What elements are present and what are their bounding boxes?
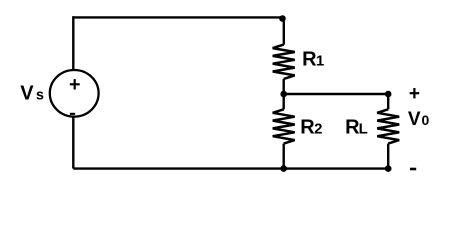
voltage source VS circle: [50, 70, 99, 117]
wire middle horizontal (R1/R2 junction to RL top): [284, 93, 389, 95]
svg-text:R: R: [302, 49, 317, 71]
output minus sign: [410, 168, 416, 171]
svg-text:0: 0: [422, 112, 430, 128]
resistor R2: [273, 94, 295, 169]
wire top rail from source top to node A: [73, 16, 282, 18]
svg-text:2: 2: [314, 121, 322, 138]
node B junction dot (R1/R2/middle wire): [280, 91, 287, 98]
svg-text:R: R: [300, 117, 315, 139]
node E junction dot (RL bottom / bottom rail end): [385, 165, 392, 172]
minus sign inside source: [70, 113, 75, 115]
wire left vertical upper (source to top rail): [72, 16, 74, 70]
wire bottom rail: [73, 167, 388, 169]
svg-text:s: s: [36, 87, 44, 103]
wire left vertical lower (source to bottom rail): [72, 117, 74, 169]
output plus sign: [410, 88, 420, 98]
node C junction dot (middle wire / RL top): [385, 91, 392, 98]
svg-text:V: V: [408, 109, 421, 130]
plus sign inside source: [70, 79, 80, 89]
resistor R1: [273, 19, 295, 95]
resistor RL: [377, 94, 399, 169]
node A junction dot (top rail / R1): [279, 15, 286, 22]
node D junction dot (R2 bottom / bottom rail): [280, 165, 287, 172]
svg-text:L: L: [359, 121, 368, 138]
svg-text:1: 1: [316, 53, 324, 70]
svg-text:V: V: [20, 82, 34, 104]
